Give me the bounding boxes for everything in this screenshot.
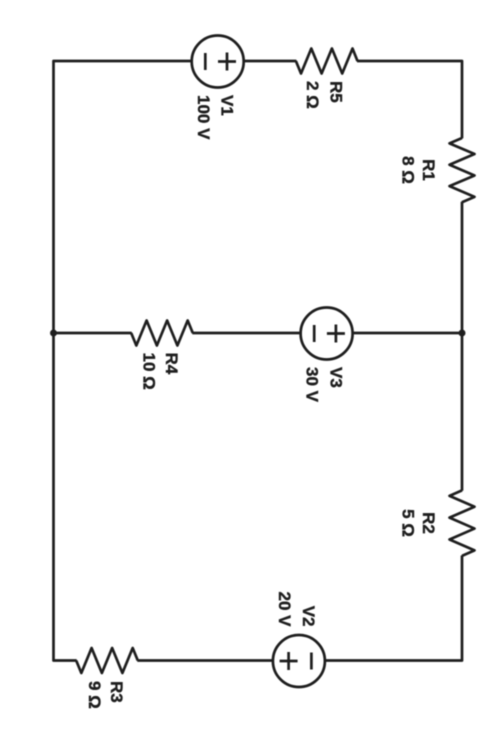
svg-text:R1: R1 [419, 159, 438, 181]
svg-text:V1: V1 [218, 95, 237, 116]
svg-text:V3: V3 [327, 367, 346, 388]
wire top-right: R5 to top-right corner down to R1 [357, 61, 462, 138]
svg-text:R5: R5 [327, 81, 346, 103]
V2 plus sign [280, 652, 298, 670]
wire right vertical, R1 to mid-right node [461, 202, 464, 333]
wire bottom, R3 to V2 [137, 659, 273, 662]
voltage source V1 circle [192, 36, 244, 88]
svg-text:20 V: 20 V [275, 592, 294, 628]
svg-text:5 Ω: 5 Ω [398, 509, 417, 537]
node: mid-right junction [459, 330, 466, 337]
voltage source V3 circle [301, 308, 353, 360]
svg-text:8 Ω: 8 Ω [398, 156, 417, 184]
svg-text:R3: R3 [107, 681, 126, 703]
resistor R3 zigzag [76, 648, 138, 673]
svg-text:V2: V2 [299, 606, 318, 627]
resistor R1 zigzag [450, 138, 475, 202]
wire left branch: V1 to top-left corner, down left side, to R3 [54, 61, 193, 661]
svg-text:10 Ω: 10 Ω [140, 353, 159, 390]
node: mid-left junction [50, 330, 57, 337]
V2 minus sign [310, 653, 313, 670]
svg-text:R4: R4 [162, 353, 181, 375]
wire middle, R4 to V3 [192, 332, 300, 335]
V3 plus sign [327, 325, 345, 343]
svg-text:100 V: 100 V [194, 95, 213, 140]
resistor R5 zigzag [296, 49, 358, 74]
wire bottom-right: R2 up from corner, corner to V2 [324, 555, 462, 660]
resistor R4 zigzag [131, 321, 193, 346]
V3 minus sign [313, 325, 316, 342]
svg-text:9 Ω: 9 Ω [85, 681, 104, 709]
wire right vertical, mid-right node to R2 [461, 333, 464, 491]
wire middle, V3 to mid-right node [352, 332, 462, 335]
resistor R2 zigzag [450, 490, 475, 555]
wire middle, mid-left node to R4 [54, 332, 132, 335]
svg-text:30 V: 30 V [303, 367, 322, 403]
V1 plus sign [218, 53, 236, 71]
voltage source V2 circle [273, 635, 325, 687]
wire top, V1 to R5 [243, 60, 296, 63]
svg-text:R2: R2 [419, 512, 438, 534]
V1 minus sign [204, 53, 207, 70]
svg-text:2 Ω: 2 Ω [303, 81, 322, 109]
